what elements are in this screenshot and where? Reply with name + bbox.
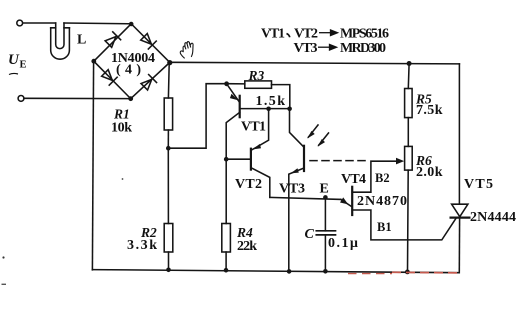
svg-text:3.3k: 3.3k bbox=[127, 238, 157, 253]
svg-text:VT1: VT1 bbox=[241, 119, 266, 134]
svg-text:VT5: VT5 bbox=[464, 177, 493, 192]
svg-text:VT3: VT3 bbox=[279, 181, 305, 196]
svg-text:22k: 22k bbox=[237, 239, 257, 254]
svg-text:MRD300: MRD300 bbox=[340, 41, 386, 56]
svg-text:10k: 10k bbox=[111, 120, 132, 135]
svg-text:2.0k: 2.0k bbox=[416, 165, 443, 180]
svg-text:L: L bbox=[77, 32, 86, 47]
svg-text:(4): (4) bbox=[116, 62, 141, 77]
svg-text:C: C bbox=[305, 227, 315, 242]
svg-text:E: E bbox=[320, 181, 329, 196]
svg-text:E: E bbox=[20, 60, 27, 71]
svg-text:U: U bbox=[8, 52, 20, 68]
svg-text:R4: R4 bbox=[236, 225, 253, 240]
svg-text:B1: B1 bbox=[377, 220, 392, 234]
svg-text:2N4444: 2N4444 bbox=[470, 210, 516, 225]
svg-text:0.1µ: 0.1µ bbox=[328, 236, 358, 251]
svg-text:VT1: VT1 bbox=[261, 26, 285, 41]
svg-text:VT4: VT4 bbox=[341, 172, 366, 187]
svg-text:VT2: VT2 bbox=[235, 177, 262, 192]
svg-text:R3: R3 bbox=[248, 68, 265, 83]
svg-text:VT2: VT2 bbox=[294, 26, 318, 41]
svg-text:1.5k: 1.5k bbox=[256, 94, 286, 109]
svg-text:VT3: VT3 bbox=[294, 41, 318, 56]
svg-text:2N4870: 2N4870 bbox=[357, 194, 407, 209]
svg-text:MPS6516: MPS6516 bbox=[340, 26, 389, 41]
svg-text:7.5k: 7.5k bbox=[416, 103, 443, 118]
svg-text:B2: B2 bbox=[375, 171, 390, 185]
